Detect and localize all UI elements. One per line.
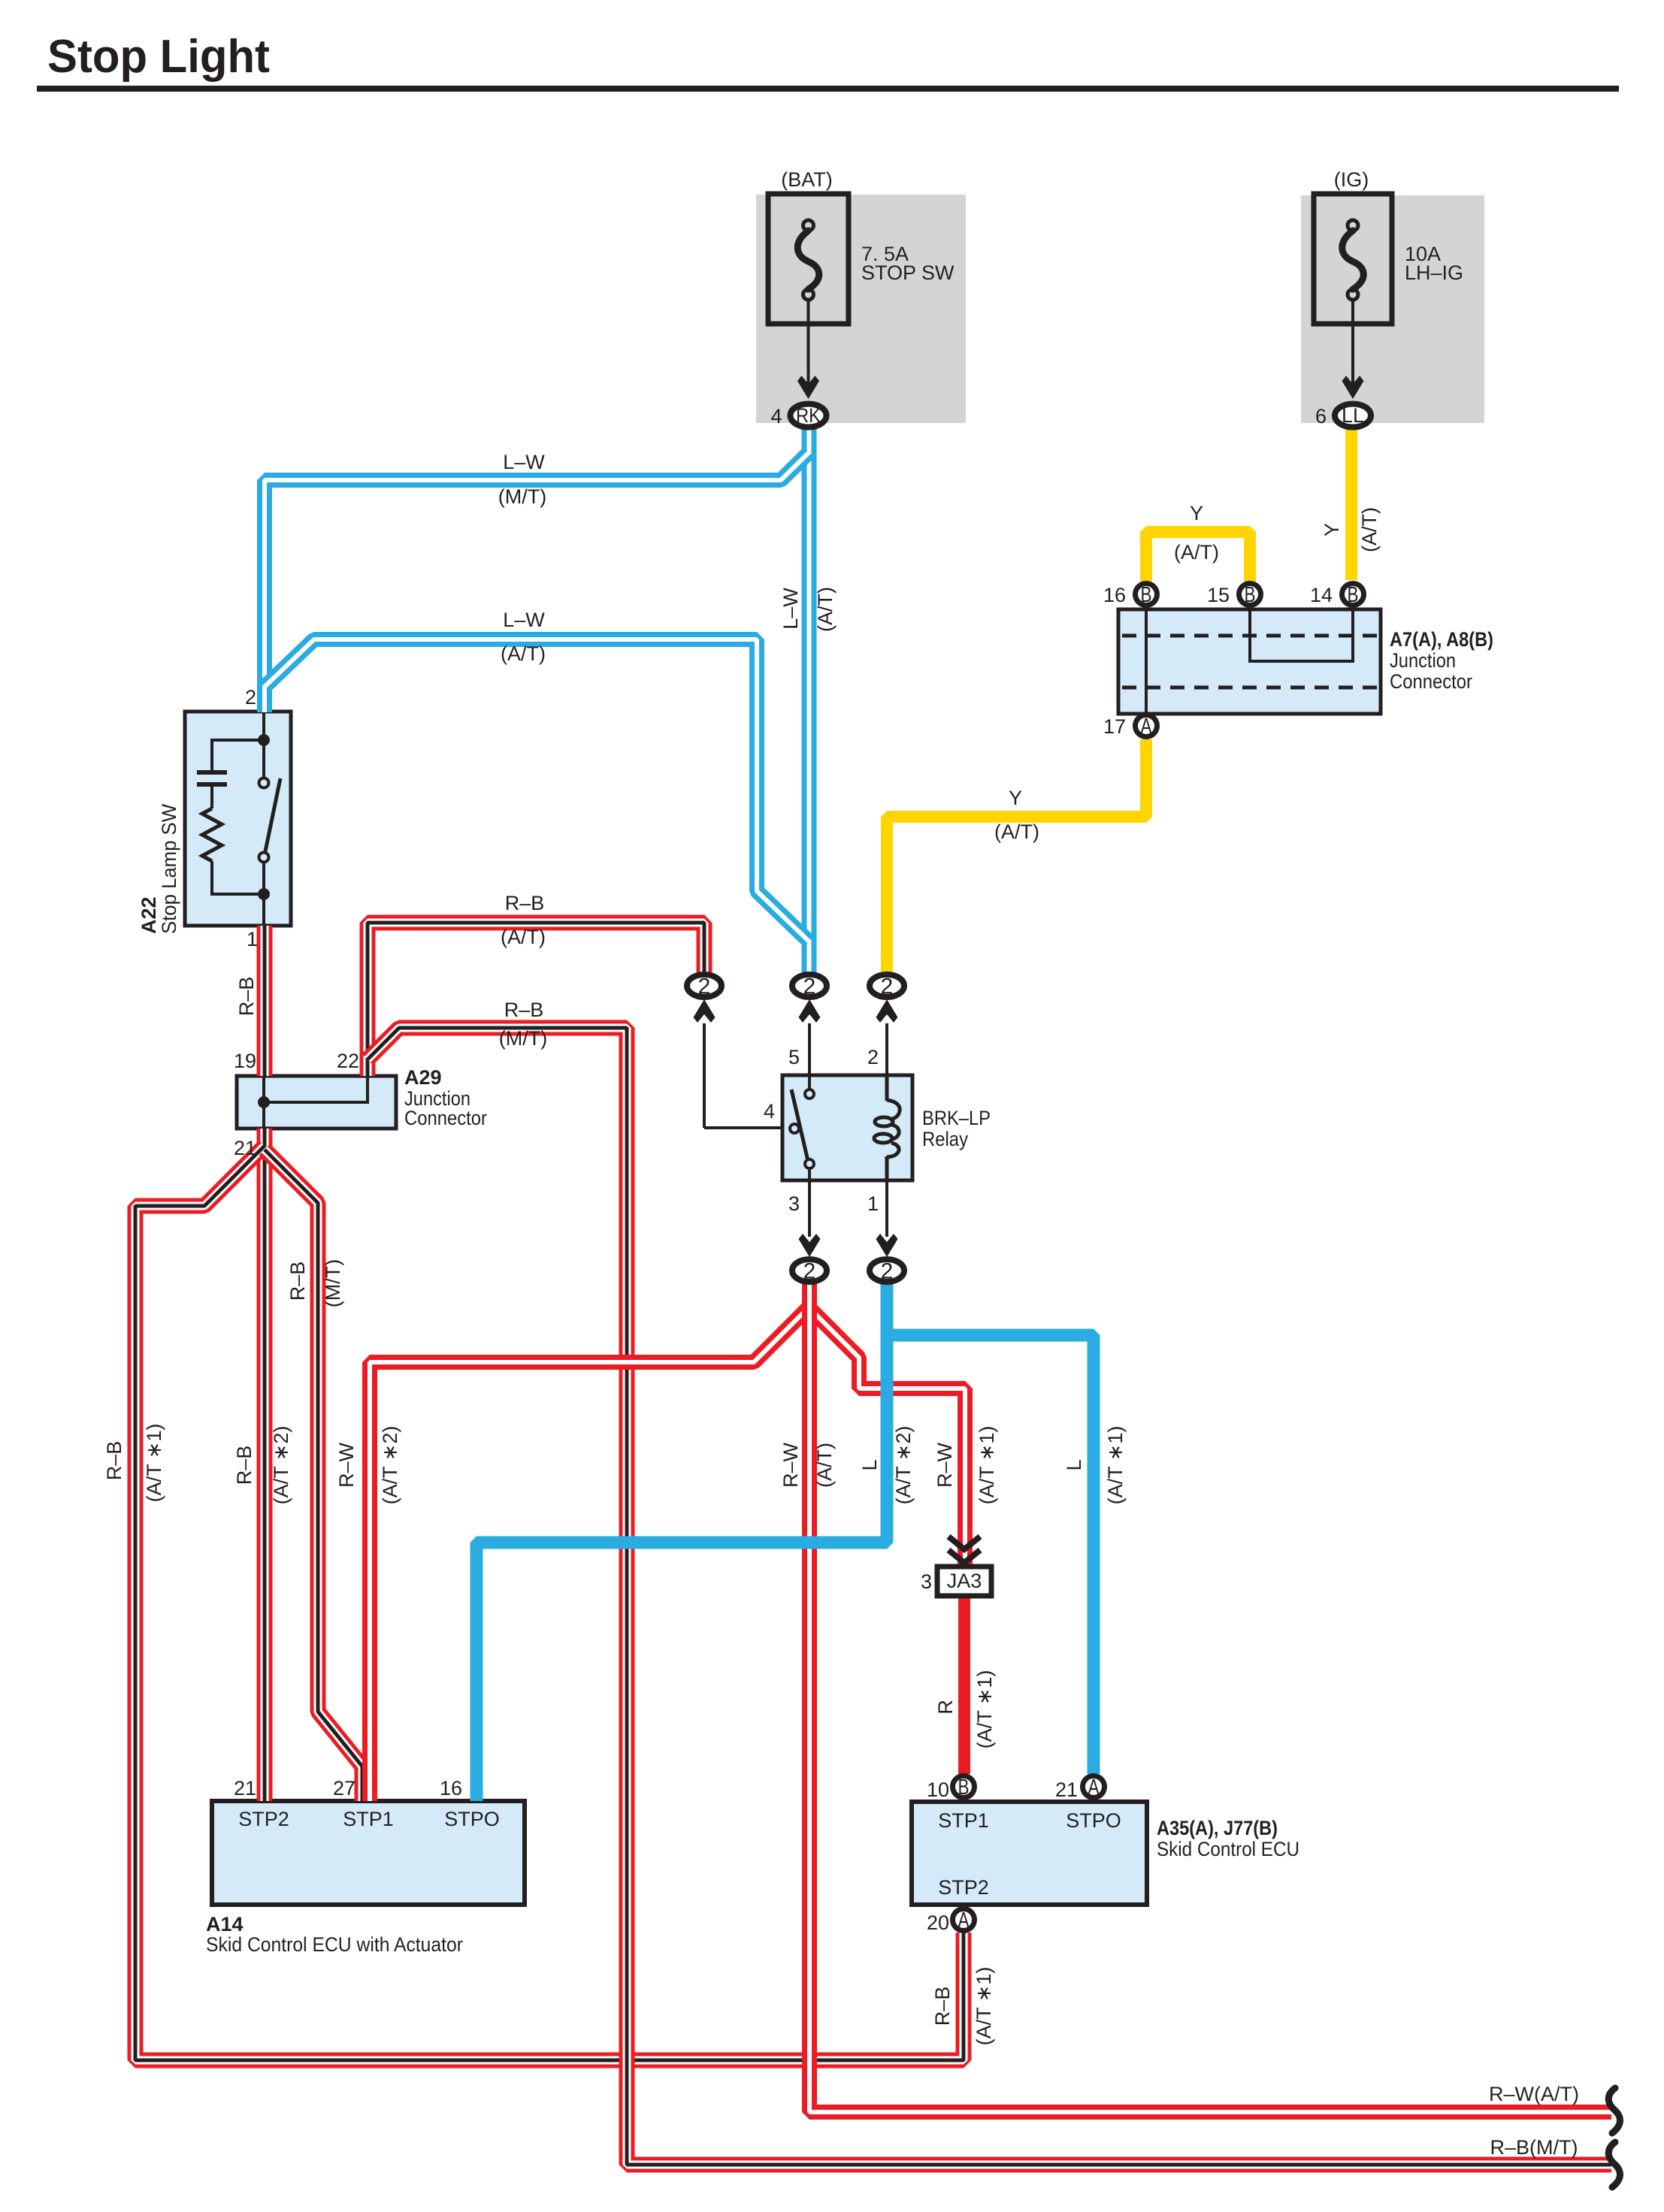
svg-text:Skid Control ECU with Actuator: Skid Control ECU with Actuator bbox=[206, 1933, 463, 1956]
svg-text:STP2: STP2 bbox=[938, 1876, 989, 1899]
svg-text:B: B bbox=[1245, 583, 1256, 607]
svg-text:6: 6 bbox=[1315, 405, 1327, 428]
svg-text:19: 19 bbox=[234, 1050, 256, 1072]
svg-text:(A/T ∗1): (A/T ∗1) bbox=[973, 1670, 996, 1749]
svg-text:Connector: Connector bbox=[404, 1107, 487, 1129]
svg-text:21: 21 bbox=[234, 1777, 256, 1800]
svg-text:14: 14 bbox=[1310, 584, 1333, 606]
svg-text:16: 16 bbox=[1103, 584, 1126, 606]
svg-text:STP1: STP1 bbox=[343, 1808, 394, 1830]
svg-text:RK: RK bbox=[796, 404, 821, 427]
svg-text:(A/T ∗1): (A/T ∗1) bbox=[1104, 1426, 1127, 1505]
svg-text:R–B(M/T): R–B(M/T) bbox=[1490, 2136, 1578, 2159]
svg-text:A: A bbox=[958, 1908, 970, 1932]
svg-text:R–W(A/T): R–W(A/T) bbox=[1489, 2083, 1579, 2105]
svg-text:(M/T): (M/T) bbox=[499, 1027, 547, 1050]
svg-text:A14: A14 bbox=[206, 1913, 244, 1935]
svg-text:R–B: R–B bbox=[286, 1262, 309, 1301]
svg-text:R: R bbox=[934, 1700, 957, 1715]
svg-text:(M/T): (M/T) bbox=[322, 1259, 344, 1307]
svg-text:(A/T ∗2): (A/T ∗2) bbox=[379, 1426, 401, 1505]
svg-text:22: 22 bbox=[337, 1050, 359, 1072]
svg-text:L: L bbox=[1063, 1459, 1085, 1470]
svg-text:(IG): (IG) bbox=[1334, 168, 1369, 191]
svg-text:(A/T): (A/T) bbox=[501, 926, 546, 948]
svg-text:1: 1 bbox=[867, 1192, 879, 1215]
svg-text:16: 16 bbox=[440, 1777, 462, 1800]
svg-text:Skid Control ECU: Skid Control ECU bbox=[1157, 1838, 1299, 1860]
svg-text:B: B bbox=[1141, 583, 1152, 607]
svg-text:(A/T ∗1): (A/T ∗1) bbox=[973, 1967, 995, 2046]
svg-text:B: B bbox=[958, 1775, 970, 1800]
svg-text:L–W: L–W bbox=[503, 609, 545, 631]
svg-text:R–B: R–B bbox=[233, 1446, 256, 1485]
svg-text:A: A bbox=[1088, 1775, 1100, 1800]
svg-text:Connector: Connector bbox=[1390, 670, 1472, 693]
svg-text:A7(A), A8(B): A7(A), A8(B) bbox=[1390, 628, 1493, 651]
svg-text:5: 5 bbox=[788, 1046, 800, 1068]
svg-text:JA3: JA3 bbox=[947, 1570, 982, 1592]
svg-text:LL: LL bbox=[1342, 404, 1364, 427]
svg-text:2: 2 bbox=[803, 975, 816, 999]
svg-text:STP2: STP2 bbox=[238, 1808, 289, 1830]
svg-text:(A/T): (A/T) bbox=[994, 820, 1039, 843]
svg-text:Junction: Junction bbox=[1390, 649, 1456, 672]
svg-text:(BAT): (BAT) bbox=[781, 168, 833, 191]
svg-text:(A/T ∗1): (A/T ∗1) bbox=[143, 1424, 165, 1503]
svg-text:R–W: R–W bbox=[779, 1442, 802, 1488]
svg-text:R–B: R–B bbox=[504, 999, 544, 1021]
svg-text:L: L bbox=[858, 1459, 881, 1470]
svg-text:LH–IG: LH–IG bbox=[1405, 261, 1463, 284]
svg-text:2: 2 bbox=[698, 975, 711, 999]
svg-text:(A/T): (A/T) bbox=[813, 1443, 836, 1488]
svg-text:(A/T): (A/T) bbox=[1174, 541, 1219, 564]
svg-text:(A/T): (A/T) bbox=[814, 587, 837, 632]
svg-text:BRK–LP: BRK–LP bbox=[922, 1107, 991, 1129]
svg-text:A35(A), J77(B): A35(A), J77(B) bbox=[1157, 1817, 1278, 1839]
svg-text:Stop Lamp SW: Stop Lamp SW bbox=[158, 804, 180, 934]
svg-text:Relay: Relay bbox=[922, 1128, 968, 1150]
svg-text:(A/T): (A/T) bbox=[501, 642, 546, 665]
svg-text:R–W: R–W bbox=[335, 1442, 358, 1488]
svg-text:2: 2 bbox=[245, 686, 256, 709]
svg-text:(A/T ∗2): (A/T ∗2) bbox=[892, 1426, 915, 1505]
svg-text:3: 3 bbox=[921, 1570, 932, 1593]
svg-text:10: 10 bbox=[927, 1778, 949, 1801]
svg-text:21: 21 bbox=[234, 1137, 256, 1159]
svg-text:STPO: STPO bbox=[444, 1808, 500, 1830]
svg-text:Y: Y bbox=[1009, 787, 1022, 809]
svg-text:STPO: STPO bbox=[1066, 1809, 1121, 1832]
svg-text:(A/T ∗2): (A/T ∗2) bbox=[270, 1426, 292, 1505]
svg-text:Stop Light: Stop Light bbox=[47, 31, 270, 83]
svg-text:A29: A29 bbox=[404, 1066, 442, 1089]
svg-text:27: 27 bbox=[333, 1777, 355, 1800]
svg-text:1: 1 bbox=[247, 928, 258, 950]
svg-text:3: 3 bbox=[788, 1192, 800, 1215]
svg-text:R–B: R–B bbox=[505, 892, 545, 914]
svg-text:A22: A22 bbox=[138, 896, 160, 934]
svg-text:(A/T): (A/T) bbox=[1358, 507, 1381, 552]
svg-text:21: 21 bbox=[1055, 1778, 1078, 1801]
svg-text:2: 2 bbox=[867, 1046, 879, 1068]
svg-text:(M/T): (M/T) bbox=[498, 485, 546, 508]
svg-text:B: B bbox=[1348, 583, 1359, 607]
svg-text:2: 2 bbox=[803, 1259, 816, 1284]
svg-text:L–W: L–W bbox=[779, 588, 802, 630]
svg-text:R–B: R–B bbox=[235, 977, 258, 1017]
svg-text:L–W: L–W bbox=[503, 451, 545, 473]
svg-text:STP1: STP1 bbox=[938, 1809, 989, 1832]
svg-text:17: 17 bbox=[1103, 715, 1126, 738]
svg-text:A: A bbox=[1141, 715, 1153, 739]
svg-text:R–B: R–B bbox=[931, 1987, 954, 2026]
svg-text:2: 2 bbox=[881, 1259, 894, 1284]
svg-text:20: 20 bbox=[927, 1911, 949, 1934]
svg-text:4: 4 bbox=[764, 1100, 775, 1123]
svg-text:R–W: R–W bbox=[933, 1442, 956, 1488]
svg-text:Y: Y bbox=[1190, 502, 1203, 524]
svg-text:R–B: R–B bbox=[103, 1441, 126, 1481]
svg-text:2: 2 bbox=[881, 975, 894, 999]
svg-text:4: 4 bbox=[770, 405, 782, 428]
svg-text:(A/T ∗1): (A/T ∗1) bbox=[976, 1426, 998, 1505]
svg-text:Y: Y bbox=[1321, 523, 1343, 536]
svg-text:15: 15 bbox=[1207, 584, 1230, 606]
svg-text:STOP SW: STOP SW bbox=[861, 261, 955, 284]
